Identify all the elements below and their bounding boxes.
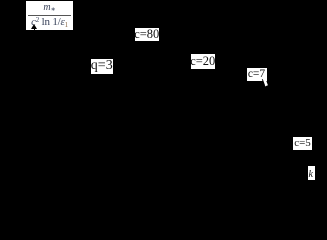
- label c=7: [247, 68, 267, 81]
- label c=7 descender stroke: [262, 79, 266, 86]
- label c=20: [191, 54, 216, 69]
- label c=80: [135, 28, 160, 41]
- y-axis arrowhead: [31, 24, 37, 29]
- label c=5: [293, 137, 312, 150]
- node y-axis label (m_* / c^2 ln 1/eps_1): [26, 1, 73, 30]
- label q=3: [91, 59, 114, 75]
- x-axis label k: [308, 166, 315, 180]
- label c=7 descender tail: [263, 80, 268, 87]
